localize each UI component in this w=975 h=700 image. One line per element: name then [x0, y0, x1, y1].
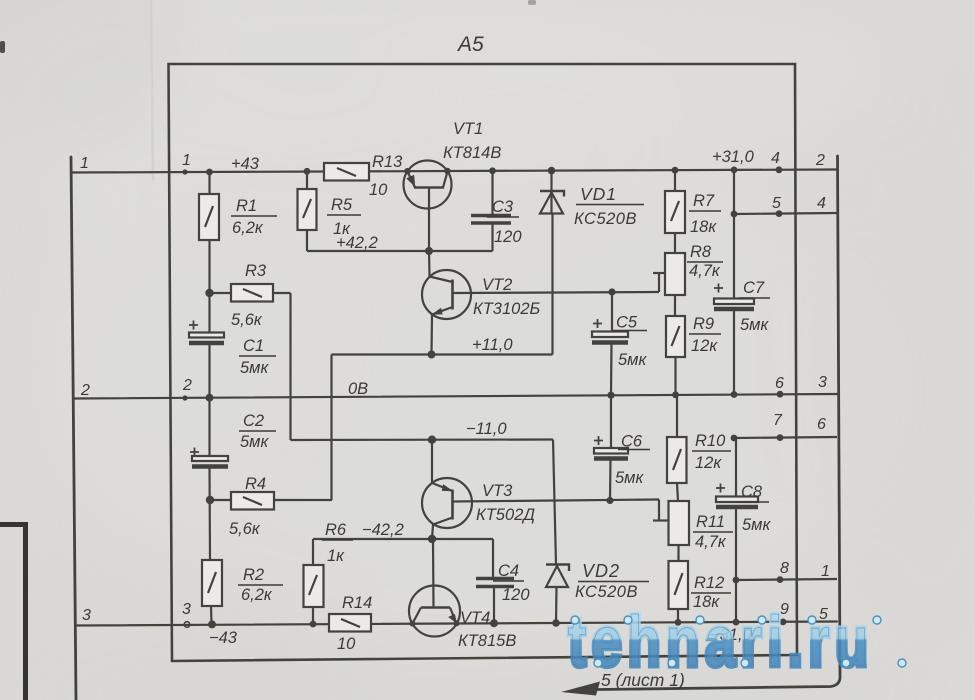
svg-text:3: 3	[818, 374, 827, 391]
label R14 10	[337, 594, 372, 653]
svg-text:1: 1	[821, 563, 830, 580]
svg-text:5: 5	[772, 195, 781, 212]
label +31,0	[712, 148, 755, 166]
label C8 5mk	[737, 483, 771, 534]
svg-text:tehnari.ru: tehnari.ru	[568, 601, 874, 682]
svg-text:VD1: VD1	[580, 184, 617, 204]
svg-text:R11: R11	[696, 513, 725, 531]
svg-text:120: 120	[502, 586, 530, 604]
svg-text:С5: С5	[616, 314, 638, 332]
svg-text:VD2: VD2	[582, 561, 620, 581]
svg-text:КС520В: КС520В	[575, 583, 638, 601]
svg-text:0В: 0В	[348, 380, 368, 398]
resistor R4	[210, 492, 332, 510]
resistor R13	[324, 163, 369, 181]
label C4 120	[493, 562, 530, 604]
capacitor C5	[592, 292, 628, 395]
svg-text:5,6к: 5,6к	[231, 311, 263, 329]
svg-text:КТ502Д: КТ502Д	[476, 506, 535, 524]
transistor VT2	[422, 251, 471, 355]
watermark corner dots	[571, 616, 906, 667]
svg-text:R10: R10	[695, 432, 726, 450]
svg-text:КС520В: КС520В	[574, 210, 637, 228]
svg-text:4: 4	[771, 150, 780, 167]
svg-text:VТ2: VТ2	[482, 276, 512, 294]
label R7 18k	[689, 192, 721, 236]
label R11 4,7k	[693, 513, 733, 551]
svg-text:6,2к: 6,2к	[232, 219, 264, 237]
capacitor C8	[716, 438, 758, 622]
label C1 5mk	[239, 337, 276, 377]
terminal circle pin3	[184, 622, 190, 628]
label R2 6,2k	[238, 566, 283, 604]
pin numbers inside right	[771, 150, 789, 618]
pin numbers outside right	[815, 152, 830, 623]
svg-text:R12: R12	[694, 574, 724, 592]
svg-text:С4: С4	[498, 562, 519, 580]
resistor R10	[667, 396, 687, 502]
svg-text:КТ814В: КТ814В	[443, 144, 501, 162]
watermark tehnari.ru	[568, 601, 874, 682]
node 1 labels	[80, 152, 191, 172]
frame A5 block border	[169, 64, 798, 661]
resistor R14	[329, 614, 371, 632]
label R4 5,6k	[229, 475, 266, 538]
svg-text:2: 2	[182, 377, 192, 394]
label R6 1k -42,2	[322, 521, 404, 565]
transistor VT3	[422, 440, 472, 540]
svg-text:12к: 12к	[695, 454, 722, 472]
svg-text:VТ1: VТ1	[453, 120, 483, 138]
label VD1 KS520V	[574, 184, 644, 228]
resistor R5	[298, 172, 317, 252]
svg-text:5мк: 5мк	[615, 469, 644, 487]
svg-text:18к: 18к	[690, 218, 717, 236]
svg-text:6,2к: 6,2к	[241, 586, 273, 604]
svg-text:R6: R6	[325, 521, 347, 539]
svg-text:−11,0: −11,0	[466, 420, 507, 438]
svg-text:1к: 1к	[327, 547, 345, 565]
svg-text:С8: С8	[741, 483, 763, 501]
label R13 10	[369, 153, 403, 199]
transistor VT4	[409, 539, 460, 637]
wire +42.2 line	[307, 250, 493, 252]
svg-text:6: 6	[817, 416, 826, 433]
left outer bus line	[71, 157, 76, 700]
resistor R9	[666, 316, 685, 396]
svg-text:R14: R14	[342, 594, 372, 612]
label VT2 KT3102B	[473, 276, 541, 318]
label +11,0	[472, 336, 513, 354]
zener diode VD2	[546, 440, 569, 624]
resistor R2	[202, 560, 222, 606]
svg-text:+42,2: +42,2	[336, 234, 378, 252]
svg-text:VТ4: VТ4	[460, 609, 490, 627]
svg-text:КТ3102Б: КТ3102Б	[473, 300, 541, 318]
wire top rail +43	[72, 170, 838, 173]
svg-text:2: 2	[80, 382, 90, 399]
zener diode VD1	[540, 171, 564, 355]
svg-text:+43: +43	[231, 155, 260, 173]
svg-text:8: 8	[780, 560, 789, 577]
node 2 labels	[80, 377, 192, 399]
label R9 12k	[689, 315, 721, 355]
label VT4 KT815V	[458, 609, 516, 650]
svg-text:1: 1	[80, 155, 89, 172]
svg-text:С7: С7	[743, 279, 765, 297]
svg-text:5мк: 5мк	[240, 433, 269, 451]
svg-text:3: 3	[182, 601, 191, 618]
label R3 5,6k	[231, 262, 267, 329]
wire pin8 line	[736, 579, 837, 580]
svg-text:+31,0: +31,0	[712, 148, 755, 166]
svg-text:R1: R1	[236, 197, 257, 215]
paper crease	[151, 0, 153, 180]
svg-text:R7: R7	[693, 192, 715, 210]
label C2 5mk	[239, 412, 276, 451]
label R5 1k	[327, 196, 361, 238]
svg-text:1: 1	[182, 152, 191, 169]
label A5	[456, 33, 484, 56]
label -31,0	[710, 626, 753, 644]
resistor R12	[669, 561, 689, 623]
capacitor C1	[189, 321, 224, 344]
sheet arrow to list 1	[561, 682, 600, 696]
junction node dots	[182, 166, 786, 628]
wire pin5 line	[734, 213, 837, 214]
svg-text:4,7к: 4,7к	[695, 533, 727, 551]
svg-text:R2: R2	[243, 566, 264, 584]
label +43	[231, 155, 260, 173]
wire +11.0 line	[332, 355, 553, 501]
label C3 120	[487, 198, 522, 246]
label VT3 KT502D	[476, 482, 535, 524]
label R1 6,2k	[231, 197, 277, 237]
transistor VT1	[404, 161, 452, 252]
svg-text:R9: R9	[693, 315, 714, 333]
svg-text:5мк: 5мк	[618, 351, 647, 369]
svg-text:10: 10	[369, 181, 388, 199]
label R10 12k	[692, 432, 731, 472]
wire -11.0 line	[291, 293, 554, 440]
svg-text:R8: R8	[690, 243, 712, 261]
resistor R6	[304, 539, 324, 624]
svg-text:3: 3	[82, 607, 91, 624]
svg-text:7: 7	[773, 412, 783, 429]
svg-text:R13: R13	[372, 153, 403, 171]
wire VT3 collector line to C6 R11	[453, 500, 669, 521]
svg-text:С3: С3	[492, 198, 514, 216]
label 0V	[348, 380, 368, 398]
svg-text:R5: R5	[331, 196, 353, 214]
label VD2 KS520V	[575, 561, 649, 601]
capacitor C7	[714, 170, 754, 396]
wire pin7 line	[734, 437, 837, 438]
svg-text:А5: А5	[456, 33, 484, 56]
resistor R1	[199, 194, 219, 240]
svg-text:R4: R4	[245, 475, 266, 493]
svg-text:5,6к: 5,6к	[229, 520, 261, 538]
label +42,2	[336, 234, 378, 252]
svg-text:2: 2	[815, 152, 825, 169]
label 5 (list 1)	[601, 670, 685, 690]
label -11,0	[466, 420, 507, 438]
wire bottom rail -43	[76, 622, 837, 626]
corner of adjacent frame bottom-left	[0, 525, 26, 700]
svg-text:С6: С6	[621, 433, 643, 451]
label C6 5mk	[615, 433, 650, 488]
label C5 5mk	[613, 314, 647, 370]
label VT1 KT814V	[443, 120, 501, 162]
svg-text:6: 6	[775, 375, 784, 392]
svg-text:4: 4	[817, 195, 826, 212]
resistor R7	[665, 171, 685, 254]
capacitor C4	[476, 579, 514, 624]
svg-text:5мк: 5мк	[740, 316, 769, 334]
capacitor C6	[594, 395, 628, 501]
wire VT2 base line to R8	[453, 273, 666, 293]
label R8 4,7k	[687, 243, 723, 280]
svg-text:С1: С1	[243, 337, 264, 355]
svg-text:10: 10	[337, 635, 356, 653]
svg-text:120: 120	[494, 228, 522, 246]
svg-text:5мк: 5мк	[240, 359, 269, 377]
resistor R3	[210, 284, 291, 302]
svg-text:12к: 12к	[691, 337, 718, 355]
wire middle rail 0V	[75, 394, 837, 399]
wire -42.2 line	[313, 539, 493, 578]
capacitor C2	[190, 448, 228, 467]
svg-text:−42,2: −42,2	[362, 521, 404, 539]
svg-text:R3: R3	[245, 262, 267, 280]
svg-text:КТ815В: КТ815В	[458, 632, 516, 650]
resistor R11 trimmer	[669, 501, 690, 561]
svg-text:С2: С2	[243, 412, 264, 430]
label -43	[209, 629, 238, 647]
svg-text:VТ3: VТ3	[482, 482, 513, 500]
label R12 18k	[691, 574, 731, 611]
svg-text:4,7к: 4,7к	[689, 262, 721, 280]
resistor R8 trimmer	[665, 253, 685, 316]
right outer bus line	[598, 156, 840, 690]
capacitor C3	[471, 171, 511, 251]
page edge mark left	[0, 41, 5, 53]
svg-text:5мк: 5мк	[742, 516, 771, 534]
node 3 labels	[82, 601, 191, 624]
svg-text:+11,0: +11,0	[472, 336, 513, 354]
wire left column vertical x=210	[210, 172, 212, 625]
label C7 5mk	[739, 279, 770, 334]
svg-text:−43: −43	[209, 629, 238, 647]
